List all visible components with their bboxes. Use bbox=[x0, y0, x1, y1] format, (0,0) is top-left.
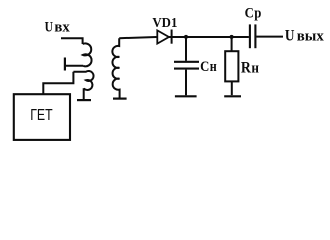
svg-text:R: R bbox=[241, 59, 252, 76]
svg-text:ГЕТ: ГЕТ bbox=[30, 107, 53, 124]
wire Cn top lead bbox=[185, 37, 187, 61]
generator box GET (heterodyne) bbox=[14, 94, 70, 140]
wire input lead from Uvx to primary winding bbox=[61, 38, 83, 44]
capacitor Cp label bbox=[245, 6, 262, 22]
svg-text:вх: вх bbox=[54, 19, 70, 35]
svg-text:С: С bbox=[245, 6, 254, 22]
capacitor Cp left plate bbox=[249, 24, 251, 48]
svg-text:VD1: VD1 bbox=[152, 16, 177, 31]
wire Cn bottom lead bbox=[185, 70, 187, 96]
node Uvyh output terminal label bbox=[285, 28, 324, 45]
diode VD1 cathode bar bbox=[171, 30, 173, 44]
svg-text:р: р bbox=[254, 6, 261, 22]
diode VD1 label bbox=[152, 16, 177, 31]
wire winding lead down to ground bbox=[83, 88, 85, 99]
capacitor Cp right plate bbox=[254, 24, 256, 48]
svg-text:н: н bbox=[210, 59, 217, 75]
capacitor Cn bottom plate bbox=[174, 68, 199, 70]
node junction dot at Rn branch bbox=[230, 35, 234, 39]
node junction dot at Cn branch bbox=[184, 35, 188, 39]
wire top rail from diode to Cp bbox=[169, 36, 249, 38]
svg-text:U: U bbox=[45, 19, 54, 35]
inductor L1 heterodyne winding (bottom-left, 2 humps) bbox=[73, 71, 93, 90]
ground bar under Rn bbox=[224, 95, 241, 97]
svg-text:С: С bbox=[200, 59, 209, 75]
wire Rn bottom lead bbox=[231, 81, 233, 95]
svg-text:U: U bbox=[285, 28, 295, 45]
svg-text:вых: вых bbox=[297, 29, 324, 45]
ground bar under Cn bbox=[175, 95, 197, 97]
diode VD1 triangle (anode) bbox=[157, 30, 169, 43]
wire Cp to output terminal bbox=[256, 36, 283, 38]
wire winding bottom lead to chassis bar bbox=[66, 65, 83, 67]
resistor Rn box bbox=[225, 51, 238, 81]
ground chassis bar (vertical) for signal winding bbox=[64, 58, 66, 71]
inductor L1 signal winding (top-left, 2 humps) bbox=[83, 43, 92, 66]
wire heterodyne feed from GET box bbox=[43, 72, 73, 94]
transformer secondary winding L2 (4 humps, bulge left) bbox=[112, 38, 119, 97]
ground bar under secondary winding bbox=[113, 97, 127, 99]
node Uvx input terminal label bbox=[45, 19, 71, 35]
wire secondary top to diode anode bbox=[119, 37, 156, 38]
svg-text:н: н bbox=[251, 60, 259, 76]
ground bar under heterodyne winding bbox=[77, 99, 91, 101]
wire Rn top lead bbox=[231, 37, 233, 51]
capacitor Cn label bbox=[200, 59, 217, 75]
resistor Rn label bbox=[241, 59, 259, 76]
capacitor Cn top plate bbox=[174, 61, 199, 63]
